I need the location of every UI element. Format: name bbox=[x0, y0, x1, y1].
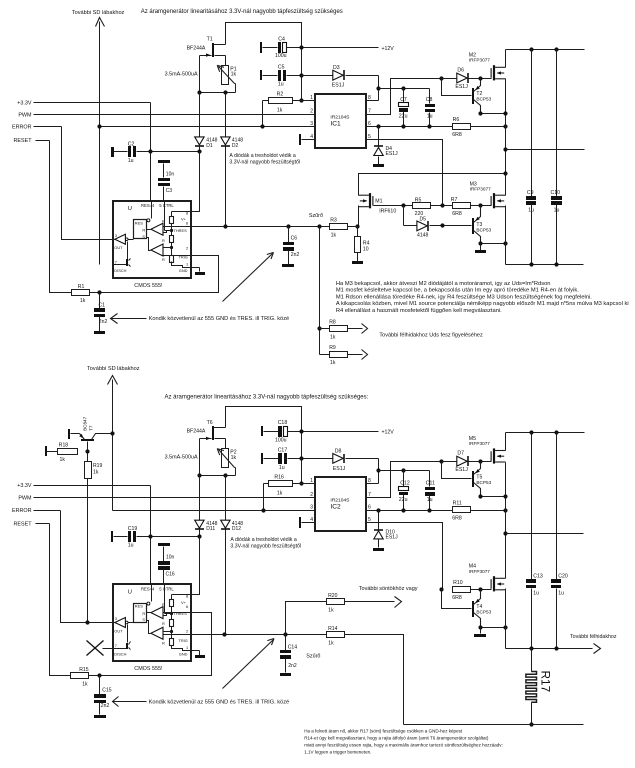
svg-text:Szűrő: Szűrő bbox=[306, 654, 320, 660]
svg-text:1k: 1k bbox=[330, 360, 336, 366]
svg-text:2n2: 2n2 bbox=[288, 663, 297, 669]
svg-text:További SD lábakhoz: További SD lábakhoz bbox=[72, 10, 125, 16]
svg-text:OUT: OUT bbox=[114, 245, 123, 250]
svg-text:6R8: 6R8 bbox=[452, 132, 462, 138]
svg-text:Az áramgenerátor linearitásáho: Az áramgenerátor linearitásához 3.3V-nál… bbox=[141, 9, 343, 15]
svg-text:DISCH: DISCH bbox=[114, 268, 126, 273]
svg-text:1k: 1k bbox=[328, 641, 334, 647]
svg-text:R: R bbox=[162, 640, 165, 645]
svg-text:IR2104S: IR2104S bbox=[330, 114, 350, 120]
svg-text:BC847: BC847 bbox=[82, 416, 87, 430]
svg-text:S: S bbox=[142, 617, 145, 622]
svg-text:R: R bbox=[142, 228, 145, 233]
svg-text:GND: GND bbox=[179, 652, 188, 657]
svg-text:C8: C8 bbox=[426, 97, 433, 103]
svg-text:C14: C14 bbox=[288, 645, 298, 651]
svg-text:THRES: THRES bbox=[174, 611, 188, 616]
svg-text:RES: RES bbox=[135, 604, 143, 609]
svg-text:M1 Rdson ellenállása töredéke: M1 Rdson ellenállása töredéke R4-nek, ig… bbox=[336, 294, 592, 300]
svg-text:1: 1 bbox=[310, 95, 313, 101]
svg-text:6R8: 6R8 bbox=[452, 211, 462, 217]
svg-text:1: 1 bbox=[186, 262, 188, 267]
svg-text:R14: R14 bbox=[328, 626, 338, 632]
svg-text:ERROR: ERROR bbox=[12, 125, 32, 131]
svg-text:1u: 1u bbox=[427, 497, 433, 503]
svg-text:1k: 1k bbox=[277, 107, 283, 113]
svg-text:3: 3 bbox=[115, 233, 117, 238]
svg-text:IRFP3077: IRFP3077 bbox=[469, 58, 490, 63]
svg-text:2: 2 bbox=[186, 245, 188, 250]
svg-text:C7: C7 bbox=[400, 97, 407, 103]
svg-text:7: 7 bbox=[368, 492, 371, 498]
svg-text:6: 6 bbox=[186, 221, 188, 226]
svg-text:R16: R16 bbox=[274, 475, 284, 481]
svg-text:Ha a felvett áram nő, akkor R1: Ha a felvett áram nő, akkor R17 (sönt) f… bbox=[304, 729, 463, 734]
svg-text:3.3V-nál nagyobb feszültségtől: 3.3V-nál nagyobb feszültségtől bbox=[230, 543, 301, 549]
svg-text:RES=4: RES=4 bbox=[141, 587, 155, 592]
svg-text:RESET: RESET bbox=[14, 521, 33, 527]
svg-text:1u: 1u bbox=[558, 591, 564, 597]
svg-text:További söntökhöz vagy: További söntökhöz vagy bbox=[359, 586, 418, 592]
svg-text:OUT: OUT bbox=[114, 629, 123, 634]
svg-text:5 CTRL: 5 CTRL bbox=[159, 203, 174, 208]
svg-text:1: 1 bbox=[310, 478, 313, 484]
svg-text:1k: 1k bbox=[93, 469, 99, 475]
svg-text:C5: C5 bbox=[278, 64, 285, 70]
svg-text:R9: R9 bbox=[329, 345, 336, 351]
svg-text:CMOS 555!: CMOS 555! bbox=[134, 283, 163, 289]
svg-text:IRFP3077: IRFP3077 bbox=[470, 187, 491, 192]
svg-text:További félhidakhoz: További félhidakhoz bbox=[570, 634, 617, 640]
svg-text:3: 3 bbox=[115, 616, 117, 621]
svg-text:miatt annyi feszültség essen r: miatt annyi feszültség essen rajta, hogy… bbox=[304, 743, 503, 748]
svg-text:6: 6 bbox=[186, 604, 188, 609]
svg-text:4148: 4148 bbox=[417, 233, 428, 239]
svg-text:3.5mA-500uA: 3.5mA-500uA bbox=[165, 455, 198, 461]
svg-text:T1: T1 bbox=[207, 37, 213, 43]
svg-text:R: R bbox=[162, 621, 165, 626]
svg-text:7: 7 bbox=[115, 260, 117, 265]
svg-text:További félhidakhoz Uds fesz f: További félhidakhoz Uds fesz figyeléséhe… bbox=[379, 333, 483, 339]
svg-text:BF244A: BF244A bbox=[187, 45, 206, 51]
svg-text:R2: R2 bbox=[277, 92, 284, 98]
svg-text:1u: 1u bbox=[278, 82, 284, 88]
svg-text:+3.3V: +3.3V bbox=[17, 100, 32, 106]
svg-text:5: 5 bbox=[368, 517, 371, 523]
svg-text:2: 2 bbox=[186, 629, 188, 634]
svg-text:C1: C1 bbox=[99, 303, 106, 309]
svg-text:1: 1 bbox=[186, 645, 188, 650]
svg-text:1u: 1u bbox=[279, 465, 285, 471]
svg-text:IR2104S: IR2104S bbox=[330, 497, 350, 503]
svg-text:További SD lábakhoz: További SD lábakhoz bbox=[87, 366, 140, 372]
svg-text:BCP53: BCP53 bbox=[476, 480, 491, 485]
svg-text:THRES: THRES bbox=[174, 228, 188, 233]
svg-text:3.5mA-500uA: 3.5mA-500uA bbox=[165, 71, 198, 77]
svg-text:1k: 1k bbox=[331, 233, 337, 239]
svg-text:S: S bbox=[142, 234, 145, 239]
svg-text:ES1J: ES1J bbox=[386, 535, 399, 541]
svg-text:10n: 10n bbox=[166, 172, 175, 178]
svg-text:3: 3 bbox=[310, 505, 313, 511]
svg-text:D7: D7 bbox=[457, 451, 464, 457]
svg-text:R8: R8 bbox=[329, 319, 336, 325]
svg-text:IC1: IC1 bbox=[330, 121, 341, 128]
svg-text:C4: C4 bbox=[278, 36, 285, 42]
svg-text:R: R bbox=[142, 611, 145, 616]
svg-text:1u: 1u bbox=[528, 207, 534, 213]
svg-text:R17: R17 bbox=[539, 671, 553, 693]
svg-text:8: 8 bbox=[186, 594, 188, 599]
svg-text:GND: GND bbox=[179, 268, 188, 273]
svg-text:22u: 22u bbox=[399, 497, 408, 503]
svg-text:RESET: RESET bbox=[14, 138, 33, 144]
svg-text:4: 4 bbox=[310, 517, 313, 523]
svg-text:10: 10 bbox=[363, 247, 369, 253]
svg-text:R: R bbox=[162, 238, 165, 243]
svg-text:2n2: 2n2 bbox=[99, 319, 108, 325]
svg-text:1k: 1k bbox=[60, 457, 66, 463]
svg-text:D6: D6 bbox=[457, 67, 464, 73]
svg-text:2n2: 2n2 bbox=[101, 703, 110, 709]
svg-text:ES1J: ES1J bbox=[455, 467, 468, 473]
svg-text:+12V: +12V bbox=[382, 46, 395, 52]
svg-text:1k: 1k bbox=[231, 455, 237, 461]
svg-text:7: 7 bbox=[115, 643, 117, 648]
svg-text:D2: D2 bbox=[232, 143, 239, 149]
svg-text:IRF610: IRF610 bbox=[379, 209, 396, 215]
svg-text:A diódák a tresholdot védik a: A diódák a tresholdot védik a bbox=[230, 537, 296, 543]
svg-text:D3: D3 bbox=[333, 65, 340, 71]
svg-text:R1: R1 bbox=[78, 284, 85, 290]
svg-text:1u: 1u bbox=[554, 207, 560, 213]
svg-text:PWM: PWM bbox=[18, 496, 32, 502]
svg-text:1k: 1k bbox=[231, 72, 237, 78]
svg-text:+3.3V: +3.3V bbox=[17, 483, 32, 489]
svg-text:U: U bbox=[128, 206, 132, 212]
svg-text:ES1J: ES1J bbox=[386, 151, 399, 157]
svg-text:PWM: PWM bbox=[18, 113, 32, 119]
svg-text:R18: R18 bbox=[59, 443, 69, 449]
svg-text:R: R bbox=[162, 257, 165, 262]
svg-text:TRIG: TRIG bbox=[179, 638, 188, 643]
svg-text:5 CTRL: 5 CTRL bbox=[159, 587, 174, 592]
svg-text:100u: 100u bbox=[275, 53, 287, 59]
svg-text:R19: R19 bbox=[93, 463, 103, 469]
svg-text:C3: C3 bbox=[166, 188, 173, 194]
svg-text:C15: C15 bbox=[102, 687, 112, 693]
svg-text:7: 7 bbox=[368, 109, 371, 115]
svg-text:DISCH: DISCH bbox=[114, 652, 126, 657]
svg-text:R10: R10 bbox=[453, 580, 463, 586]
svg-text:C2: C2 bbox=[128, 142, 135, 148]
svg-text:C19: C19 bbox=[128, 526, 138, 532]
svg-text:D1: D1 bbox=[206, 143, 213, 149]
svg-text:ERROR: ERROR bbox=[12, 508, 32, 514]
svg-text:1.1V legyen a trigger bemenete: 1.1V legyen a trigger bemeneten. bbox=[304, 750, 371, 755]
svg-text:5: 5 bbox=[368, 134, 371, 140]
svg-text:C9: C9 bbox=[527, 190, 534, 196]
svg-text:ES1J: ES1J bbox=[455, 84, 468, 90]
svg-text:Ha M3 bekapcsol, akkor átveszi: Ha M3 bekapcsol, akkor átveszi M2 diódáj… bbox=[336, 281, 551, 287]
svg-text:C6: C6 bbox=[291, 236, 298, 242]
svg-text:C12: C12 bbox=[400, 481, 410, 487]
svg-text:Kondik közvetlenül az 555 GND: Kondik közvetlenül az 555 GND és TRES. i… bbox=[149, 316, 290, 322]
svg-text:2: 2 bbox=[310, 492, 313, 498]
svg-text:C20: C20 bbox=[558, 573, 568, 579]
svg-text:CMOS 555!: CMOS 555! bbox=[134, 666, 163, 672]
svg-text:2: 2 bbox=[310, 109, 313, 115]
svg-text:8: 8 bbox=[186, 210, 188, 215]
svg-text:T7: T7 bbox=[89, 425, 94, 431]
svg-text:D5: D5 bbox=[420, 216, 427, 222]
svg-text:1k: 1k bbox=[80, 298, 86, 304]
svg-text:BCP53: BCP53 bbox=[476, 610, 491, 615]
svg-text:R14-et úgy kell megválasztani,: R14-et úgy kell megválasztani, hogy a ra… bbox=[304, 736, 489, 741]
svg-text:A diódák a tresholdot védik a: A diódák a tresholdot védik a bbox=[229, 153, 295, 159]
svg-text:6R8: 6R8 bbox=[452, 515, 462, 521]
svg-text:+12V: +12V bbox=[382, 429, 395, 435]
svg-text:A kikapcsolás közben, mivel M1: A kikapcsolás közben, mivel M1 source po… bbox=[336, 301, 629, 307]
svg-text:ES1J: ES1J bbox=[332, 83, 345, 89]
svg-text:1u: 1u bbox=[533, 591, 539, 597]
svg-text:R4 ellenállást a használt mosf: R4 ellenállást a használt mosfetektől fü… bbox=[336, 308, 502, 314]
svg-text:IC2: IC2 bbox=[330, 504, 341, 511]
svg-text:C13: C13 bbox=[533, 573, 543, 579]
svg-text:R6: R6 bbox=[453, 117, 460, 123]
svg-text:1k: 1k bbox=[82, 681, 88, 687]
svg-text:M1: M1 bbox=[375, 198, 382, 204]
svg-text:1u: 1u bbox=[128, 543, 134, 549]
svg-text:R4: R4 bbox=[363, 240, 370, 246]
svg-text:C10: C10 bbox=[551, 190, 561, 196]
svg-text:RES: RES bbox=[135, 220, 143, 225]
svg-text:4: 4 bbox=[310, 134, 313, 140]
svg-text:TRIG: TRIG bbox=[179, 255, 188, 260]
svg-text:M1 mosfet késleltetve kapcsol: M1 mosfet késleltetve kapcsol be, a beka… bbox=[336, 288, 579, 294]
svg-text:IRFP3077: IRFP3077 bbox=[469, 441, 490, 446]
svg-text:1k: 1k bbox=[328, 608, 334, 614]
svg-text:D11: D11 bbox=[206, 526, 215, 532]
svg-text:3.3V-nál nagyobb feszültségtől: 3.3V-nál nagyobb feszültségtől bbox=[229, 160, 300, 166]
svg-text:BCP53: BCP53 bbox=[476, 97, 491, 102]
svg-text:R3: R3 bbox=[330, 218, 337, 224]
svg-text:6R8: 6R8 bbox=[452, 595, 462, 601]
svg-text:IRFP3077: IRFP3077 bbox=[469, 569, 490, 574]
svg-text:100u: 100u bbox=[275, 437, 287, 443]
svg-text:R20: R20 bbox=[328, 593, 338, 599]
svg-text:1k: 1k bbox=[277, 490, 283, 496]
svg-text:BF244A: BF244A bbox=[187, 429, 206, 435]
svg-text:Kondik közvetlenül az 555 GND: Kondik közvetlenül az 555 GND és TRES. i… bbox=[149, 699, 290, 705]
svg-text:U: U bbox=[128, 590, 132, 596]
svg-text:1u: 1u bbox=[128, 158, 134, 164]
svg-text:C18: C18 bbox=[278, 420, 288, 426]
svg-text:D12: D12 bbox=[232, 526, 241, 532]
svg-text:1k: 1k bbox=[330, 334, 336, 340]
svg-text:BCP53: BCP53 bbox=[476, 228, 491, 233]
svg-text:10n: 10n bbox=[166, 555, 175, 561]
svg-text:22u: 22u bbox=[399, 114, 408, 120]
svg-text:C17: C17 bbox=[278, 447, 288, 453]
svg-text:T6: T6 bbox=[207, 420, 213, 426]
svg-text:D8: D8 bbox=[335, 448, 342, 454]
svg-text:6: 6 bbox=[368, 505, 371, 511]
svg-text:3: 3 bbox=[310, 121, 313, 127]
svg-text:1u: 1u bbox=[427, 114, 433, 120]
svg-text:C16: C16 bbox=[166, 572, 175, 578]
svg-text:RES=4: RES=4 bbox=[141, 203, 155, 208]
svg-text:2n2: 2n2 bbox=[291, 252, 300, 258]
svg-text:R11: R11 bbox=[453, 501, 462, 507]
svg-text:ES1J: ES1J bbox=[333, 466, 346, 472]
svg-text:Szűrő: Szűrő bbox=[309, 213, 323, 219]
svg-text:Az áramgenerátor linearitásáho: Az áramgenerátor linearitásához 3.3V-nál… bbox=[165, 394, 369, 400]
svg-text:C11: C11 bbox=[426, 481, 435, 487]
